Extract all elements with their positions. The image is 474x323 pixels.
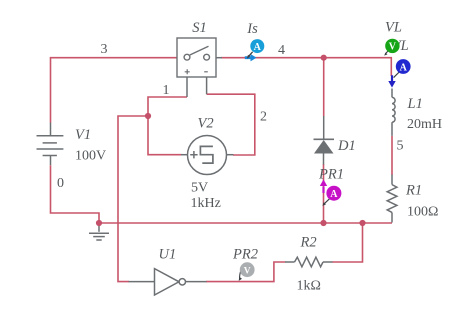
svg-text:A: A bbox=[330, 189, 338, 200]
svg-text:V: V bbox=[244, 266, 251, 276]
svg-text:1kΩ: 1kΩ bbox=[297, 279, 321, 294]
svg-text:D1: D1 bbox=[337, 138, 356, 154]
svg-text:1kHz: 1kHz bbox=[191, 196, 221, 211]
svg-text:PR2: PR2 bbox=[232, 247, 258, 263]
svg-text:VL: VL bbox=[385, 20, 402, 36]
svg-text:PR1: PR1 bbox=[318, 167, 344, 183]
svg-text:5: 5 bbox=[397, 139, 404, 154]
svg-text:100V: 100V bbox=[75, 149, 106, 164]
svg-text:20mH: 20mH bbox=[407, 117, 442, 132]
svg-text:1: 1 bbox=[163, 83, 170, 98]
svg-text:L1: L1 bbox=[407, 96, 423, 112]
svg-text:V: V bbox=[389, 42, 397, 53]
svg-text:0: 0 bbox=[57, 176, 64, 191]
svg-text:Is: Is bbox=[246, 21, 258, 37]
svg-text:S1: S1 bbox=[192, 20, 207, 36]
svg-text:A: A bbox=[400, 62, 408, 73]
svg-text:R1: R1 bbox=[405, 183, 422, 199]
svg-text:U1: U1 bbox=[159, 247, 177, 263]
svg-text:5V: 5V bbox=[191, 181, 208, 196]
svg-text:V1: V1 bbox=[75, 127, 91, 143]
svg-text:3: 3 bbox=[101, 42, 108, 57]
svg-text:100Ω: 100Ω bbox=[407, 205, 438, 220]
svg-text:4: 4 bbox=[278, 43, 285, 58]
svg-text:2: 2 bbox=[260, 110, 267, 125]
svg-text:R2: R2 bbox=[300, 235, 317, 251]
svg-text:V2: V2 bbox=[198, 116, 214, 132]
svg-text:A: A bbox=[254, 42, 262, 53]
